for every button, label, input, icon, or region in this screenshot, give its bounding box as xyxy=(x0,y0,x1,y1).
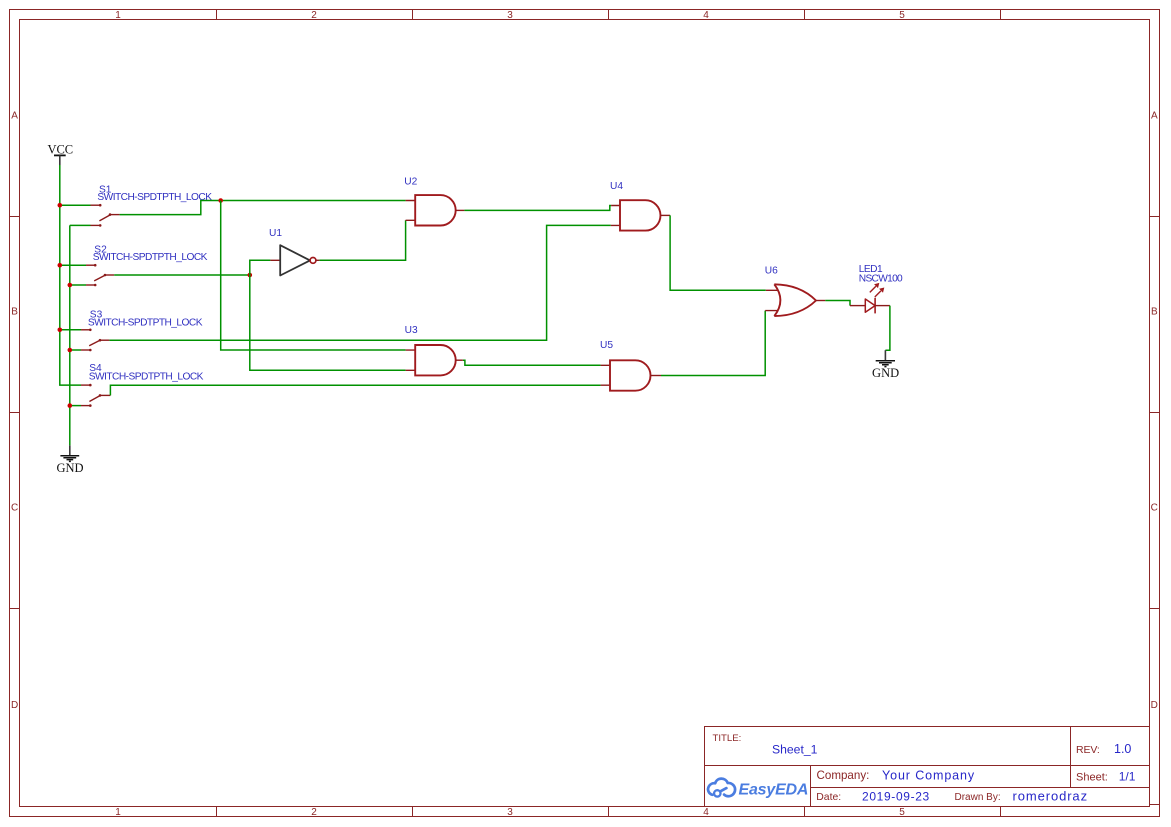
svg-text:B: B xyxy=(1151,307,1158,318)
svg-text:A: A xyxy=(11,111,18,122)
AND gate U3 xyxy=(405,325,463,375)
svg-text:1: 1 xyxy=(115,10,121,21)
svg-text:3: 3 xyxy=(507,807,513,818)
svg-text:B: B xyxy=(11,307,18,318)
svg-text:U2: U2 xyxy=(404,176,417,187)
AND gate U5 xyxy=(600,340,661,391)
wire U1 output to U2 bottom input xyxy=(319,220,405,260)
svg-text:4: 4 xyxy=(703,807,709,818)
svg-text:Your Company: Your Company xyxy=(882,768,975,782)
svg-text:GND: GND xyxy=(872,366,899,380)
wire U3 output to U5 top input xyxy=(463,360,601,365)
svg-text:Sheet:: Sheet: xyxy=(1076,771,1108,783)
EasyEDA logo xyxy=(708,779,808,799)
title block xyxy=(705,727,1150,807)
junction GND-S3 xyxy=(68,348,73,353)
wire S1 pole to U2 and node xyxy=(120,201,406,215)
ground GND left xyxy=(56,445,83,474)
wire S3 pole to U4 bottom input xyxy=(109,225,610,340)
wire U6 output to LED1 xyxy=(825,301,850,306)
wire GND rail xyxy=(69,225,71,445)
wire S2 pole to node xyxy=(114,274,250,276)
junction VCC-S1 xyxy=(58,203,63,208)
wire S4 pole to U5 bottom input xyxy=(110,385,600,395)
svg-text:NSCW100: NSCW100 xyxy=(859,274,903,285)
svg-text:SWITCH-SPDTPTH_LOCK: SWITCH-SPDTPTH_LOCK xyxy=(88,317,203,328)
wire S2 node to U1 input xyxy=(250,260,271,275)
wire S2 node to U3 bottom input xyxy=(250,275,406,370)
inverter U1 xyxy=(269,228,319,276)
svg-text:2: 2 xyxy=(311,807,317,818)
wire U2 output to U4 top input xyxy=(464,206,611,211)
svg-text:EasyEDA: EasyEDA xyxy=(739,782,809,799)
LED LED1 xyxy=(850,264,903,314)
svg-text:Sheet_1: Sheet_1 xyxy=(772,742,818,756)
svg-text:C: C xyxy=(11,503,18,514)
svg-text:U1: U1 xyxy=(269,228,282,239)
svg-text:4: 4 xyxy=(703,10,709,21)
wire VCC rail xyxy=(60,165,81,385)
svg-text:U3: U3 xyxy=(405,325,418,336)
OR gate U6 xyxy=(765,265,826,316)
svg-text:U4: U4 xyxy=(610,181,623,192)
svg-text:GND: GND xyxy=(56,461,83,475)
junction S2 node xyxy=(248,273,253,278)
svg-text:C: C xyxy=(1151,503,1158,514)
junction GND-S2 xyxy=(68,283,73,288)
svg-text:romerodraz: romerodraz xyxy=(1013,788,1088,803)
svg-text:Date:: Date: xyxy=(816,792,841,803)
svg-text:1/1: 1/1 xyxy=(1119,770,1136,784)
switch S1 xyxy=(60,184,212,226)
wire U4 output to U6 top input xyxy=(670,215,766,290)
junction VCC-S2 xyxy=(58,263,63,268)
svg-text:A: A xyxy=(1151,111,1158,122)
svg-text:D: D xyxy=(1151,700,1158,711)
junction GND-S4 xyxy=(68,403,73,408)
svg-text:SWITCH-SPDTPTH_LOCK: SWITCH-SPDTPTH_LOCK xyxy=(93,252,208,263)
power flag VCC xyxy=(47,143,73,165)
svg-text:D: D xyxy=(11,700,18,711)
junction S1 node xyxy=(218,198,223,203)
svg-text:1.0: 1.0 xyxy=(1114,742,1131,756)
switch S2 xyxy=(60,245,208,287)
wire LED1 to GND xyxy=(885,306,890,351)
svg-text:5: 5 xyxy=(899,807,905,818)
svg-text:SWITCH-SPDTPTH_LOCK: SWITCH-SPDTPTH_LOCK xyxy=(97,192,212,203)
ground GND right xyxy=(872,350,899,380)
svg-text:U6: U6 xyxy=(765,265,778,276)
svg-text:SWITCH-SPDTPTH_LOCK: SWITCH-SPDTPTH_LOCK xyxy=(89,371,204,382)
svg-text:Company:: Company: xyxy=(817,769,870,782)
switch S3 xyxy=(60,310,203,352)
svg-text:REV:: REV: xyxy=(1076,744,1100,756)
svg-text:5: 5 xyxy=(899,10,905,21)
svg-text:U5: U5 xyxy=(600,340,613,351)
svg-text:2019-09-23: 2019-09-23 xyxy=(862,789,930,803)
svg-text:Drawn By:: Drawn By: xyxy=(955,792,1001,803)
AND gate U4 xyxy=(610,181,670,231)
switch S4 xyxy=(70,363,204,407)
wire U5 output to U6 bottom input xyxy=(661,311,765,376)
svg-text:2: 2 xyxy=(311,10,317,21)
svg-text:TITLE:: TITLE: xyxy=(713,733,742,744)
junction VCC-S3 xyxy=(58,328,63,333)
AND gate U2 xyxy=(404,176,464,225)
svg-text:3: 3 xyxy=(507,10,513,21)
svg-text:1: 1 xyxy=(115,807,121,818)
wire S1 node to U3 top input xyxy=(221,201,406,351)
